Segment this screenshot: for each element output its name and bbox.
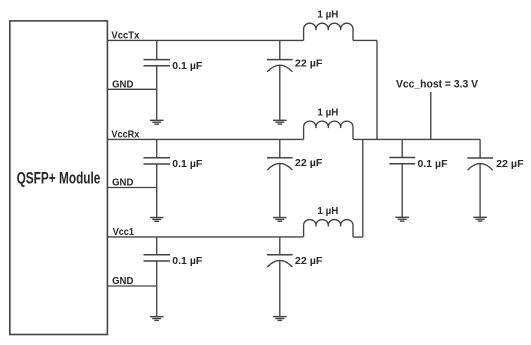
svg-text:22 µF: 22 µF bbox=[496, 159, 524, 170]
svg-text:22 µF: 22 µF bbox=[295, 158, 323, 169]
wire: C3 to ground bbox=[156, 188, 158, 218]
ground (row 2, 22uF) bbox=[273, 218, 287, 222]
svg-text:22 µF: 22 µF bbox=[295, 58, 323, 69]
svg-text:QSFP+ Module: QSFP+ Module bbox=[17, 169, 101, 187]
wire: VccRx rail bbox=[107, 138, 303, 140]
wire: up from L3 to host rail bbox=[362, 139, 364, 237]
wire: GND pin row 3 bbox=[107, 285, 156, 287]
capacitor C5 0.1uF (Vcc1) bbox=[144, 237, 171, 286]
inductor L2 1uH (VccRx) bbox=[304, 121, 353, 139]
wire: VccTx rail bbox=[107, 39, 303, 41]
ground (host 22uF) bbox=[473, 217, 487, 221]
capacitor C6 22uF (Vcc1, polarized) bbox=[267, 237, 293, 317]
wire: C5 to ground bbox=[156, 286, 158, 317]
ground (row 3, 22uF) bbox=[273, 317, 287, 321]
wire: L1 output to corner bbox=[353, 39, 377, 41]
svg-text:0.1 µF: 0.1 µF bbox=[172, 61, 202, 72]
svg-text:1 µH: 1 µH bbox=[317, 9, 338, 20]
ground (row 3, 0.1uF chain) bbox=[150, 317, 164, 321]
ground (row 1, 22uF) bbox=[273, 120, 287, 124]
svg-text:22 µF: 22 µF bbox=[295, 256, 323, 267]
wire: GND pin row 2 bbox=[107, 187, 156, 189]
wire: host rail horizontal bbox=[353, 138, 480, 140]
wire: Vcc1 rail bbox=[107, 236, 303, 238]
ground (host 0.1uF) bbox=[395, 217, 409, 221]
wire: L3 output jog bbox=[353, 236, 363, 238]
svg-text:0.1 µF: 0.1 µF bbox=[172, 256, 202, 267]
IC U1: QSFP+ Module body bbox=[10, 21, 108, 335]
wire: C1 to ground bbox=[156, 89, 158, 120]
svg-text:Vcc_host = 3.3 V: Vcc_host = 3.3 V bbox=[396, 79, 479, 91]
ground (row 1, 0.1uF chain) bbox=[150, 120, 164, 124]
svg-text:1 µH: 1 µH bbox=[317, 108, 338, 119]
svg-text:1 µH: 1 µH bbox=[317, 206, 338, 217]
svg-text:GND: GND bbox=[112, 276, 133, 287]
ground (row 2, 0.1uF chain) bbox=[150, 218, 164, 222]
capacitor C3 0.1uF (VccRx) bbox=[144, 139, 171, 187]
capacitor C4 22uF (VccRx, polarized) bbox=[267, 139, 293, 217]
wire: Vcc_host stub bbox=[430, 92, 432, 139]
capacitor C1 0.1uF (VccTx) bbox=[144, 40, 171, 89]
capacitor C7 0.1uF (host) bbox=[389, 139, 415, 217]
svg-text:0.1 µF: 0.1 µF bbox=[172, 159, 202, 170]
wire: GND pin row 1 bbox=[107, 88, 156, 90]
wire: down from L1 to host rail bbox=[376, 40, 378, 139]
svg-text:0.1 µF: 0.1 µF bbox=[418, 159, 448, 170]
inductor L3 1uH (Vcc1) bbox=[304, 220, 353, 238]
inductor L1 1uH (VccTx) bbox=[304, 23, 353, 40]
capacitor C8 22uF (host, polarized) bbox=[467, 139, 493, 217]
capacitor C2 22uF (VccTx, polarized) bbox=[267, 40, 293, 120]
